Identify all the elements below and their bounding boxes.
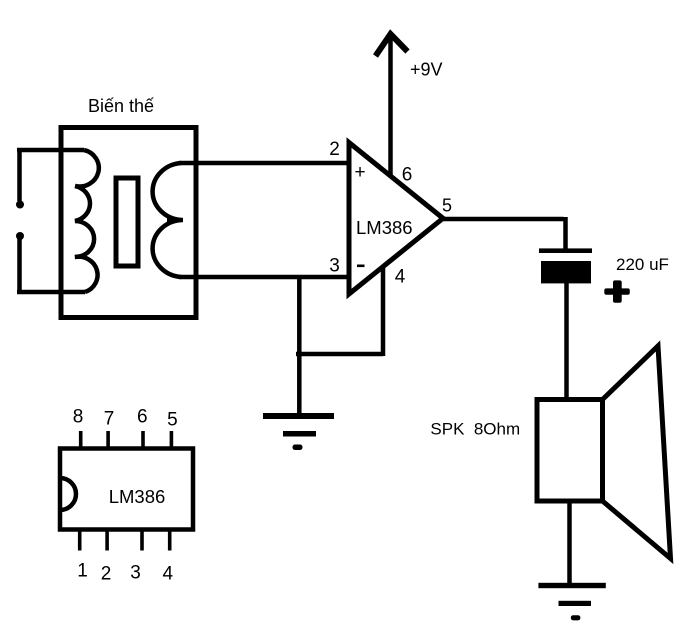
svg-text:3: 3: [130, 563, 141, 584]
svg-text:4: 4: [395, 267, 406, 288]
svg-text:5: 5: [167, 410, 178, 431]
svg-text:2: 2: [101, 564, 112, 585]
svg-text:LM386: LM386: [109, 486, 166, 507]
svg-text:+: +: [354, 162, 365, 183]
svg-text:220 uF: 220 uF: [616, 255, 669, 274]
svg-text:1: 1: [77, 561, 88, 582]
svg-text:+9V: +9V: [410, 60, 443, 80]
svg-text:SPK 8Ohm: SPK 8Ohm: [430, 420, 520, 439]
svg-text:4: 4: [163, 564, 174, 585]
svg-text:7: 7: [104, 409, 115, 430]
svg-text:2: 2: [329, 139, 340, 160]
svg-text:8: 8: [73, 407, 84, 428]
svg-text:3: 3: [329, 256, 340, 277]
svg-text:Biến thế: Biến thế: [88, 96, 154, 116]
svg-text:6: 6: [402, 165, 413, 186]
svg-text:6: 6: [137, 407, 148, 428]
svg-text:LM386: LM386: [356, 217, 413, 238]
svg-text:5: 5: [442, 196, 452, 216]
